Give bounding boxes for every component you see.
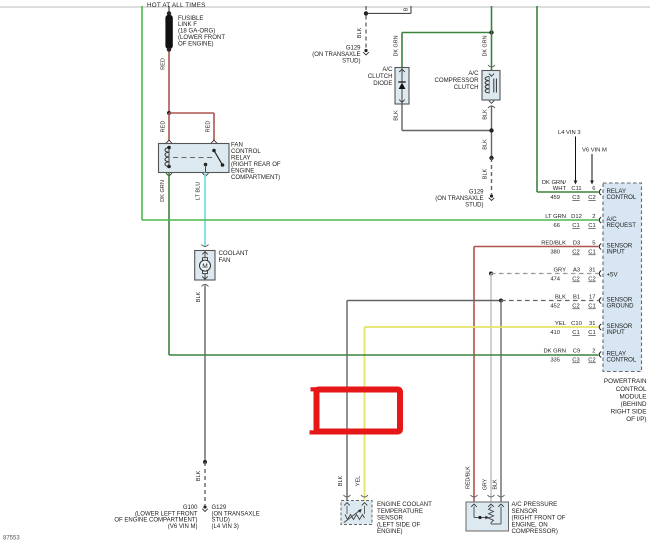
svg-text:(ON TRANSAXLE: (ON TRANSAXLE <box>435 196 483 202</box>
svg-text:FAN: FAN <box>219 257 231 264</box>
top rule under HOT AT ALL TIMES <box>0 6 650 8</box>
svg-text:B1: B1 <box>573 294 580 300</box>
wire BLK dashed down to G129 <box>365 16 367 49</box>
terminal arrow relay coil out <box>166 173 172 176</box>
terminal arrow relay switch out <box>203 173 209 176</box>
svg-text:RIGHT SIDE: RIGHT SIDE <box>611 409 647 416</box>
svg-text:REQUEST: REQUEST <box>607 222 637 229</box>
svg-text:410: 410 <box>550 330 560 336</box>
wire BLK from diode down <box>401 104 403 131</box>
svg-text:DK GRN/: DK GRN/ <box>542 180 567 186</box>
wire LT BLU from relay to coolant fan <box>204 173 206 247</box>
pressure sensor internals <box>473 507 475 518</box>
node splice to B terminal <box>364 11 368 15</box>
node splice on fan ground wire <box>203 460 207 464</box>
svg-text:LT BLU: LT BLU <box>196 182 202 200</box>
svg-text:DK GRN: DK GRN <box>543 348 566 354</box>
node BLK splice <box>499 299 503 303</box>
svg-text:COMPRESSOR: COMPRESSOR <box>434 77 479 84</box>
svg-text:OF ENGINE COMPARTMENT): OF ENGINE COMPARTMENT) <box>114 518 197 524</box>
svg-text:G100: G100 <box>183 505 198 511</box>
wire BLK dashed to ground G129 <box>491 158 493 194</box>
svg-text:M: M <box>202 263 208 270</box>
svg-text:GRY: GRY <box>554 267 567 273</box>
relay coil <box>165 148 169 167</box>
relay output terminal <box>204 163 208 167</box>
svg-text:STUD): STUD) <box>465 203 483 209</box>
clutch plates <box>493 79 495 93</box>
node bottom terminal of fusible link <box>167 47 171 51</box>
svg-text:BLK: BLK <box>555 294 566 300</box>
svg-text:G129: G129 <box>469 190 484 196</box>
ground G129 right <box>490 194 493 197</box>
connector cups ECT sensor <box>344 495 351 497</box>
PCM pin entry arcs and row labels <box>599 189 601 195</box>
compressor clutch box <box>482 71 500 101</box>
connector cup coolant fan top <box>202 245 209 247</box>
svg-text:BLK: BLK <box>393 110 399 121</box>
svg-text:C2: C2 <box>588 195 595 201</box>
svg-text:C1: C1 <box>572 223 579 229</box>
svg-text:C2: C2 <box>588 277 595 283</box>
svg-text:C11: C11 <box>571 186 581 192</box>
relay box fan control relay <box>159 144 230 173</box>
svg-text:INPUT: INPUT <box>607 329 626 336</box>
terminal arrow out of coolant fan <box>202 276 208 279</box>
svg-text:452: 452 <box>550 304 560 310</box>
svg-text:L4 VIN 3: L4 VIN 3 <box>558 130 581 136</box>
wire BLK vertical to ECT sensor <box>346 301 348 501</box>
svg-text:G129: G129 <box>346 46 361 52</box>
ground G100/G129 symbol <box>203 505 206 508</box>
svg-text:YEL: YEL <box>356 476 362 487</box>
relay switch contact <box>212 149 216 153</box>
svg-text:(L4 VIN 3): (L4 VIN 3) <box>212 524 239 530</box>
svg-text:CLUTCH: CLUTCH <box>454 84 479 91</box>
wire GRY vertical to pressure sensor <box>490 274 492 502</box>
svg-text:OF I/P): OF I/P) <box>626 416 646 423</box>
svg-text:+5V: +5V <box>607 272 619 279</box>
svg-text:BLK: BLK <box>196 291 202 302</box>
svg-text:C2: C2 <box>572 250 579 256</box>
svg-text:A3: A3 <box>573 267 580 273</box>
svg-text:RED: RED <box>160 58 166 70</box>
svg-text:31: 31 <box>589 321 595 327</box>
wire DK GRN/WHT horizontal to PCM <box>537 191 599 193</box>
svg-text:BLK: BLK <box>483 139 489 150</box>
terminal arrow into relay pin 1 <box>166 140 172 143</box>
svg-text:C3: C3 <box>572 358 579 364</box>
diode box A/C clutch diode <box>395 68 409 105</box>
svg-text:YEL: YEL <box>555 321 567 327</box>
svg-text:RED/BLK: RED/BLK <box>541 240 566 246</box>
svg-text:87553: 87553 <box>3 536 20 542</box>
wire DK GRN down to diode <box>401 33 403 68</box>
svg-text:66: 66 <box>554 223 560 229</box>
svg-text:D3: D3 <box>573 240 580 246</box>
node splice before dashed ground run <box>489 156 493 160</box>
terminal arrow into relay pin 2 <box>211 140 217 143</box>
terminal arrow into coolant fan <box>202 252 208 255</box>
wire DK GRN from relay coil down <box>168 173 170 356</box>
svg-text:STUD): STUD) <box>342 59 360 65</box>
wire BLK sensor ground horizontal <box>347 300 501 302</box>
wire RED down to relay coil <box>168 113 170 141</box>
svg-text:INPUT: INPUT <box>607 249 626 256</box>
svg-text:COOLANT: COOLANT <box>219 250 249 257</box>
wire RED down to relay switch <box>213 113 215 141</box>
ECT thermistor internals <box>346 506 348 514</box>
svg-text:HOT AT ALL TIMES: HOT AT ALL TIMES <box>147 2 206 9</box>
svg-text:V6 VIN M: V6 VIN M <box>582 148 607 154</box>
svg-text:A/C: A/C <box>382 66 393 73</box>
svg-text:BLK: BLK <box>483 168 489 179</box>
svg-text:D12: D12 <box>571 214 582 220</box>
wire RED branch horizontal <box>169 112 214 114</box>
wire GRY dashed to PCM <box>491 273 599 275</box>
svg-text:(ON TRANSAXLE: (ON TRANSAXLE <box>312 52 360 58</box>
wire RED/BLK vertical to pressure sensor <box>473 247 475 502</box>
svg-text:(LOWER LEFT FRONT: (LOWER LEFT FRONT <box>135 511 198 517</box>
wire BLK from coolant fan down <box>204 286 206 463</box>
svg-text:GRY: GRY <box>482 478 488 490</box>
svg-text:BLK: BLK <box>196 470 202 481</box>
relay mechanical link dashed <box>173 157 214 159</box>
wire RED from fusible link <box>168 52 170 114</box>
svg-text:OF ENGINE): OF ENGINE) <box>178 40 214 47</box>
svg-text:2: 2 <box>592 348 595 354</box>
wire RED/BLK horizontal to PCM <box>474 246 599 248</box>
svg-text:COMPRESSOR): COMPRESSOR) <box>512 528 558 535</box>
svg-text:(ON TRANSAXLE: (ON TRANSAXLE <box>212 511 260 517</box>
wire branch to terminal B <box>366 12 411 14</box>
svg-text:WHT: WHT <box>553 186 567 192</box>
svg-text:A/C: A/C <box>468 70 479 77</box>
node top terminal of fusible link <box>167 11 171 15</box>
svg-text:(BEHIND: (BEHIND <box>621 401 647 408</box>
node splice junction red <box>167 111 171 115</box>
wire BLK dashed to ground <box>204 462 206 505</box>
svg-text:RED/BLK: RED/BLK <box>465 466 471 489</box>
svg-text:RED: RED <box>160 121 166 133</box>
wire DK GRN/WHT vertical <box>536 6 538 192</box>
svg-text:RED: RED <box>205 121 211 133</box>
svg-text:STUD): STUD) <box>212 518 230 524</box>
svg-text:C1: C1 <box>588 250 595 256</box>
svg-text:ENGINE): ENGINE) <box>377 528 403 535</box>
svg-text:C1: C1 <box>572 330 579 336</box>
wire YEL horizontal to PCM <box>365 326 599 328</box>
svg-text:CONTROL: CONTROL <box>607 357 637 364</box>
svg-text:31: 31 <box>589 267 595 273</box>
svg-text:335: 335 <box>550 358 560 364</box>
svg-text:POWERTRAIN: POWERTRAIN <box>604 378 647 385</box>
A/C pressure sensor box <box>466 502 509 531</box>
svg-text:CONTROL: CONTROL <box>616 386 647 393</box>
svg-text:G129: G129 <box>212 505 227 511</box>
node splice diode ground join <box>489 128 493 132</box>
svg-text:B: B <box>404 7 410 11</box>
connector cups pressure sensor <box>471 495 478 497</box>
wire BLK vertical to pressure sensor <box>500 301 502 502</box>
svg-text:C3: C3 <box>572 195 579 201</box>
wire DK GRN vertical to compressor clutch <box>491 6 493 71</box>
node GRY splice <box>489 272 493 276</box>
wire BLK dashed to PCM <box>501 300 599 302</box>
compressor clutch coil <box>485 77 489 93</box>
svg-text:BLK: BLK <box>493 479 499 489</box>
svg-text:C2: C2 <box>572 304 579 310</box>
svg-text:(V6 VIN M): (V6 VIN M) <box>168 524 198 530</box>
wire LT GRN vertical feed at x=142 <box>141 6 143 220</box>
svg-text:DK GRN: DK GRN <box>483 35 489 56</box>
wire DK GRN horizontal to PCM relay control <box>169 354 599 356</box>
svg-text:17: 17 <box>589 294 595 300</box>
wire BLK below compressor clutch <box>491 106 493 158</box>
wire YEL vertical to ECT sensor <box>364 327 366 501</box>
wire LT GRN horizontal to PCM A/C request <box>142 219 599 221</box>
svg-text:DIODE: DIODE <box>373 80 392 87</box>
wire stub above fusible link F <box>168 6 170 12</box>
red highlight marker rectangle <box>317 390 401 432</box>
coolant fan motor box <box>195 251 215 281</box>
svg-text:GROUND: GROUND <box>607 303 635 310</box>
svg-text:DK GRN: DK GRN <box>160 180 166 202</box>
svg-text:C1: C1 <box>588 304 595 310</box>
svg-text:C9: C9 <box>573 348 580 354</box>
ECT sensor box dashed <box>341 501 372 525</box>
svg-text:2: 2 <box>592 214 595 220</box>
ground G129 top <box>364 49 367 52</box>
svg-text:380: 380 <box>550 250 560 256</box>
svg-text:DK GRN: DK GRN <box>393 35 399 56</box>
svg-text:459: 459 <box>550 195 560 201</box>
diode symbol <box>398 81 405 83</box>
svg-text:C2: C2 <box>588 358 595 364</box>
svg-text:C2: C2 <box>572 277 579 283</box>
wire BLK dashed from top <box>365 6 367 11</box>
svg-text:MODULE: MODULE <box>620 393 647 400</box>
wire DK GRN horizontal to diode <box>402 32 492 34</box>
svg-text:BLK: BLK <box>357 27 363 38</box>
svg-text:6: 6 <box>592 186 595 192</box>
svg-text:C10: C10 <box>571 321 582 327</box>
svg-text:CLUTCH: CLUTCH <box>368 73 393 80</box>
svg-text:C1: C1 <box>588 223 595 229</box>
wire BLK horizontal to clutch ground leg <box>402 130 492 132</box>
svg-text:BLK: BLK <box>483 109 489 120</box>
svg-text:5: 5 <box>592 240 595 246</box>
svg-text:CONTROL: CONTROL <box>607 194 637 201</box>
svg-text:BLK: BLK <box>338 475 344 486</box>
node splice on compressor clutch feed <box>489 30 493 34</box>
fusible link F <box>166 15 172 48</box>
svg-text:COMPARTMENT): COMPARTMENT) <box>231 174 280 181</box>
coolant fan motor circle M <box>203 258 208 261</box>
svg-text:474: 474 <box>550 277 560 283</box>
PCM powertrain control module box <box>603 183 642 372</box>
svg-text:C1: C1 <box>588 330 595 336</box>
svg-text:LT GRN: LT GRN <box>545 214 566 220</box>
